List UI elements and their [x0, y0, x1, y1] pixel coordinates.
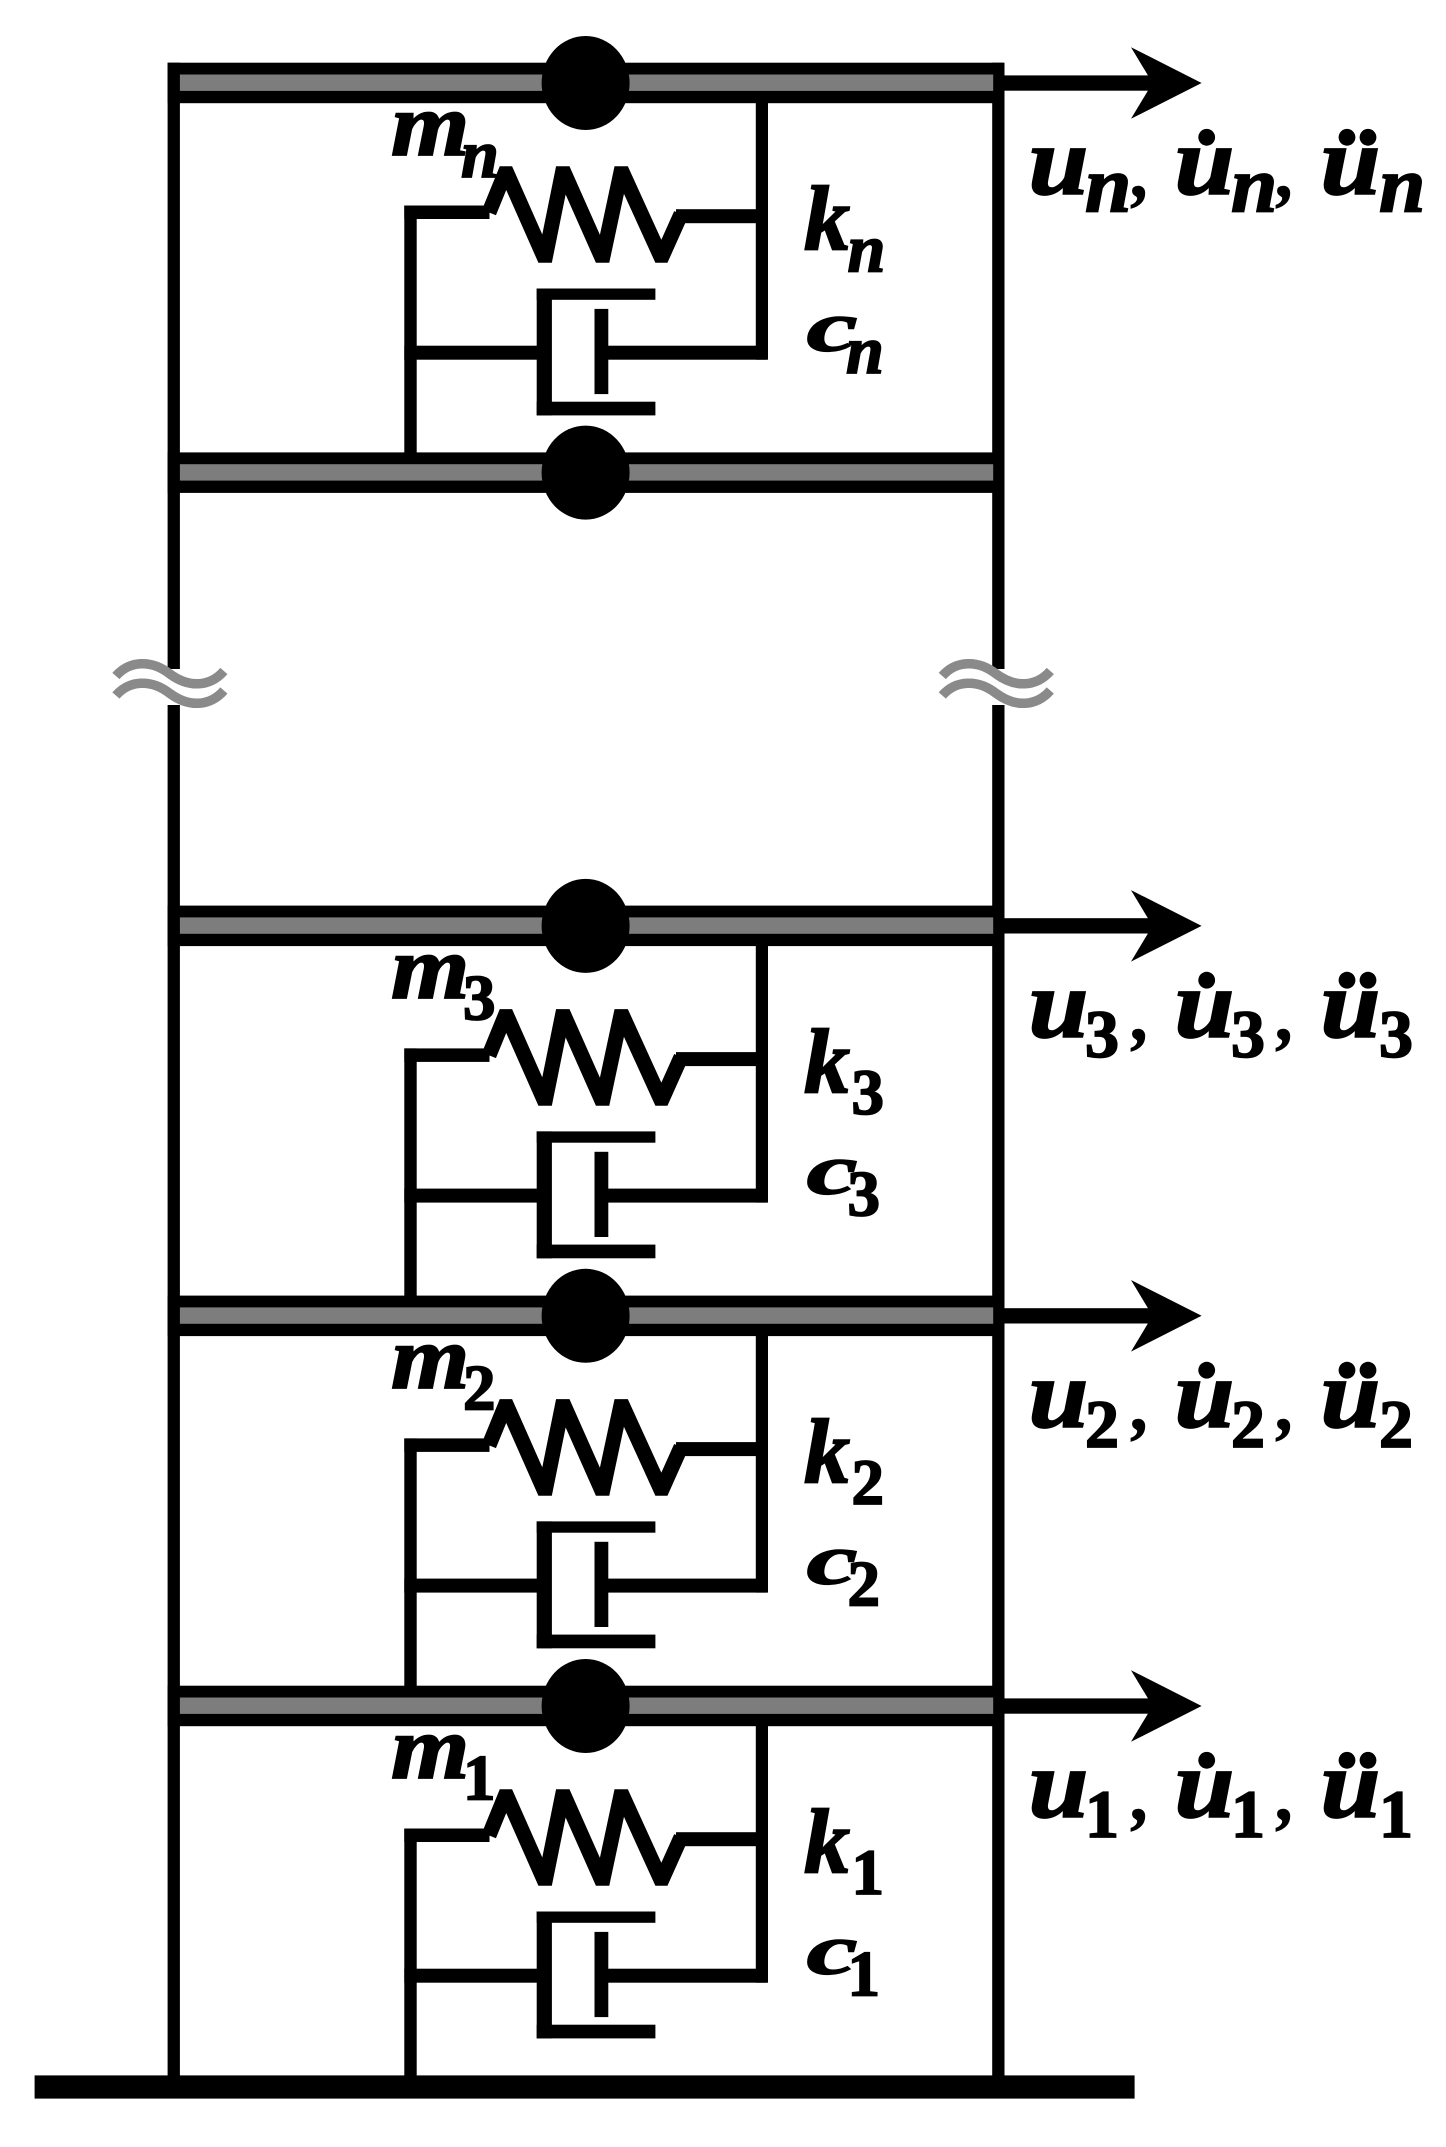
svg-text:2: 2 — [848, 1549, 881, 1621]
floor slab 1 — [168, 1686, 1004, 1727]
damper c3 piston — [595, 1152, 609, 1237]
svg-text:n: n — [1231, 140, 1277, 229]
svg-text:,: , — [1276, 1755, 1297, 1837]
svg-text:2: 2 — [463, 1353, 496, 1425]
spring k1 right lead wire — [676, 1832, 767, 1846]
spring k1 zigzag — [489, 1797, 681, 1879]
spring kn zigzag — [489, 174, 681, 256]
floor slab n-1 — [168, 452, 1004, 493]
spring kn left lead wire — [404, 206, 489, 220]
svg-text:u: u — [1029, 1730, 1089, 1838]
displacement arrow u3 — [1003, 890, 1202, 962]
lumped mass node m_(n-1) — [542, 426, 630, 520]
damper cn cylinder top wall — [537, 289, 656, 300]
left column (upper segment) — [168, 63, 180, 669]
svg-text:n: n — [1085, 140, 1131, 229]
column break mark (left) — [116, 664, 224, 704]
svg-text:n: n — [846, 312, 884, 388]
svg-text:,: , — [1276, 1365, 1297, 1447]
damper c1 cylinder bottom wall — [537, 2025, 656, 2039]
response label un, udotn, uddotn — [1029, 107, 1426, 229]
svg-text:u: u — [1321, 950, 1381, 1058]
svg-text:u: u — [1029, 107, 1089, 215]
svg-text:u: u — [1029, 1340, 1089, 1448]
svg-text:1: 1 — [463, 1743, 496, 1815]
damper cn cylinder left wall — [537, 289, 552, 416]
lumped mass node m_n — [542, 36, 630, 130]
displacement arrow u1 — [1003, 1670, 1202, 1742]
svg-text:1: 1 — [1085, 1776, 1119, 1852]
svg-text:,: , — [1131, 132, 1152, 214]
svg-text:2: 2 — [1231, 1386, 1265, 1462]
svg-text:1: 1 — [1231, 1776, 1265, 1852]
lumped mass node m_2 — [542, 1269, 630, 1363]
floor slab 2 — [168, 1296, 1004, 1337]
spring k1 left lead wire — [404, 1829, 489, 1843]
svg-text:k: k — [804, 1791, 850, 1893]
story-3 right hanger wire — [756, 946, 768, 1203]
svg-text:k: k — [804, 1401, 850, 1503]
ground — [35, 2075, 1135, 2098]
damper cn left rod wire — [404, 346, 551, 360]
damper c2 cylinder left wall — [537, 1521, 552, 1648]
response label u2, udot2, uddot2 — [1029, 1340, 1414, 1462]
svg-text:u: u — [1175, 107, 1235, 215]
damper c3 piston rod wire — [608, 1189, 767, 1203]
svg-text:u: u — [1175, 1340, 1235, 1448]
svg-text:1: 1 — [848, 1939, 881, 2011]
svg-text:,: , — [1131, 975, 1152, 1057]
svg-text:3: 3 — [852, 1057, 885, 1129]
story-n right hanger wire — [756, 103, 768, 360]
damper c3 cylinder left wall — [537, 1131, 552, 1258]
svg-text:u: u — [1321, 1340, 1381, 1448]
spring k2 zigzag — [489, 1407, 681, 1489]
svg-text:n: n — [461, 116, 499, 192]
svg-text:3: 3 — [1231, 996, 1265, 1072]
damper cn cylinder bottom wall — [537, 402, 656, 416]
damper c2 left rod wire — [404, 1579, 551, 1593]
spring k2 right lead wire — [676, 1442, 767, 1456]
response label u1, udot1, uddot1 — [1029, 1730, 1414, 1852]
svg-text:3: 3 — [463, 963, 496, 1035]
svg-text:k: k — [804, 1011, 850, 1113]
svg-text:,: , — [1131, 1755, 1152, 1837]
story-n left bracket wire — [404, 206, 416, 455]
story-3 left bracket wire — [404, 1048, 416, 1297]
svg-text:1: 1 — [852, 1837, 885, 1909]
damper c1 cylinder top wall — [537, 1912, 656, 1923]
svg-text:,: , — [1276, 975, 1297, 1057]
damper cn piston — [595, 309, 609, 394]
floor slab n — [168, 63, 1004, 103]
displacement arrow un — [1003, 47, 1202, 119]
damper c2 cylinder top wall — [537, 1521, 656, 1532]
damper cn piston rod wire — [608, 346, 767, 360]
svg-text:1: 1 — [1379, 1776, 1413, 1852]
story-1 right hanger wire — [756, 1726, 768, 1983]
svg-text:3: 3 — [1085, 996, 1119, 1072]
damper c2 piston rod wire — [608, 1579, 767, 1593]
damper c1 left rod wire — [404, 1969, 551, 1983]
damper c2 piston — [595, 1542, 609, 1627]
svg-text:,: , — [1276, 132, 1297, 214]
story-2 right hanger wire — [756, 1336, 768, 1593]
damper c3 cylinder top wall — [537, 1131, 656, 1142]
story-1 left bracket wire — [404, 1829, 416, 2078]
svg-text:u: u — [1321, 1730, 1381, 1838]
spring kn right lead wire — [676, 209, 767, 223]
damper c1 piston — [595, 1932, 609, 2017]
svg-text:2: 2 — [1085, 1386, 1119, 1462]
svg-text:,: , — [1131, 1365, 1152, 1447]
svg-text:2: 2 — [1379, 1386, 1413, 1462]
svg-text:3: 3 — [1379, 996, 1413, 1072]
spring k3 right lead wire — [676, 1052, 767, 1066]
svg-text:u: u — [1029, 950, 1089, 1058]
damper c3 cylinder bottom wall — [537, 1245, 656, 1259]
svg-text:2: 2 — [852, 1447, 885, 1519]
right column (upper segment) — [992, 63, 1004, 669]
left column (lower segment) — [168, 705, 180, 2079]
svg-text:3: 3 — [848, 1159, 881, 1231]
right column (lower segment) — [992, 705, 1004, 2079]
damper c2 cylinder bottom wall — [537, 1635, 656, 1649]
svg-text:u: u — [1321, 107, 1381, 215]
spring k2 left lead wire — [404, 1438, 489, 1452]
svg-text:u: u — [1175, 950, 1235, 1058]
damper c1 cylinder left wall — [537, 1912, 552, 2039]
column break mark (right) — [942, 664, 1050, 704]
damper c3 left rod wire — [404, 1189, 551, 1203]
lumped mass node m_1 — [542, 1659, 630, 1753]
story-2 left bracket wire — [404, 1438, 416, 1687]
svg-text:k: k — [804, 168, 850, 270]
damper c1 piston rod wire — [608, 1969, 767, 1983]
svg-text:n: n — [1379, 140, 1425, 229]
displacement arrow u2 — [1003, 1280, 1202, 1352]
svg-text:n: n — [848, 211, 886, 287]
lumped mass node m_3 — [542, 879, 630, 973]
response label u3, udot3, uddot3 — [1029, 950, 1414, 1072]
spring k3 left lead wire — [404, 1048, 489, 1062]
floor slab 3 — [168, 906, 1004, 947]
svg-text:u: u — [1175, 1730, 1235, 1838]
spring k3 zigzag — [489, 1017, 681, 1099]
